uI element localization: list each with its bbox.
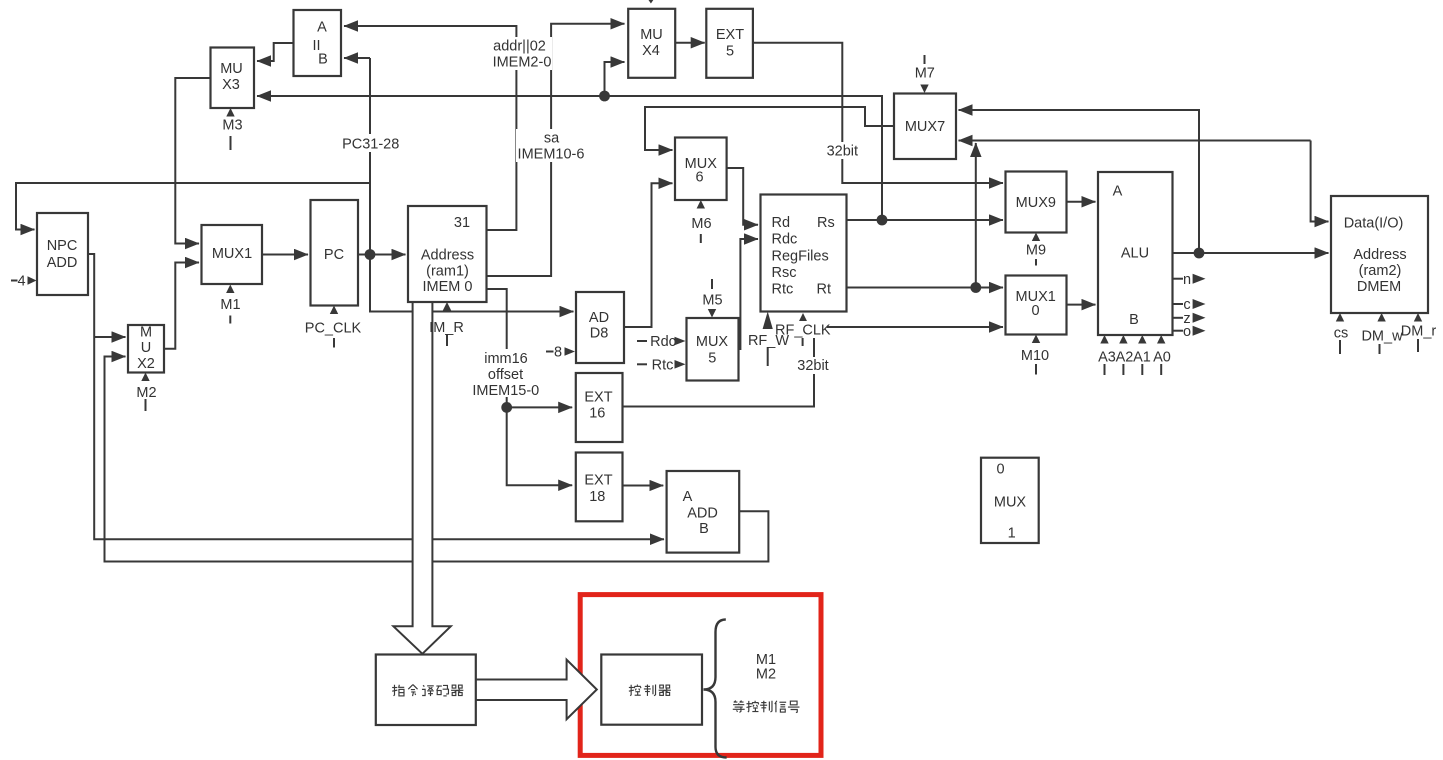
svg-text:PC: PC bbox=[324, 247, 344, 263]
svg-text:A3: A3 bbox=[1098, 350, 1116, 366]
svg-text:EXT: EXT bbox=[584, 389, 612, 405]
svg-text:18: 18 bbox=[589, 489, 605, 505]
svg-text:M9: M9 bbox=[1026, 243, 1046, 259]
svg-text:0: 0 bbox=[996, 462, 1004, 478]
svg-text:M1: M1 bbox=[220, 297, 240, 313]
svg-text:Data(I/O): Data(I/O) bbox=[1344, 216, 1404, 232]
svg-text:B: B bbox=[699, 521, 709, 537]
svg-text:ALU: ALU bbox=[1121, 246, 1149, 262]
svg-text:D8: D8 bbox=[590, 326, 609, 342]
svg-text:PC_CLK: PC_CLK bbox=[305, 321, 362, 337]
svg-text:offset: offset bbox=[488, 367, 523, 383]
svg-text:MUX: MUX bbox=[696, 334, 729, 350]
svg-text:AD: AD bbox=[589, 310, 609, 326]
svg-text:M10: M10 bbox=[1021, 348, 1049, 364]
svg-text:MU: MU bbox=[220, 61, 243, 77]
svg-text:5: 5 bbox=[726, 43, 734, 59]
svg-text:EXT: EXT bbox=[716, 27, 744, 43]
svg-text:imm16: imm16 bbox=[484, 351, 528, 367]
svg-text:Rdc: Rdc bbox=[772, 232, 798, 248]
svg-text:X3: X3 bbox=[222, 77, 240, 93]
svg-text:B: B bbox=[318, 52, 328, 68]
svg-text:16: 16 bbox=[589, 406, 605, 422]
svg-text:IMEM15-0: IMEM15-0 bbox=[472, 383, 539, 399]
svg-text:32bit: 32bit bbox=[827, 144, 858, 160]
svg-text:NPC: NPC bbox=[47, 238, 78, 254]
svg-text:IMEM 0: IMEM 0 bbox=[423, 279, 473, 295]
svg-text:0: 0 bbox=[1031, 303, 1039, 319]
svg-text:addr||02: addr||02 bbox=[493, 39, 546, 55]
svg-text:X2: X2 bbox=[137, 356, 155, 372]
svg-text:8: 8 bbox=[554, 345, 562, 361]
svg-text:EXT: EXT bbox=[584, 472, 612, 488]
svg-text:cs: cs bbox=[1334, 326, 1349, 342]
svg-text:X4: X4 bbox=[642, 43, 660, 59]
svg-text:A: A bbox=[1113, 184, 1123, 200]
svg-text:6: 6 bbox=[695, 170, 703, 186]
svg-text:Address: Address bbox=[1353, 247, 1406, 263]
svg-text:o: o bbox=[1183, 324, 1191, 340]
svg-text:A2: A2 bbox=[1116, 350, 1134, 366]
svg-text:B: B bbox=[1129, 312, 1139, 328]
svg-text:IMEM10-6: IMEM10-6 bbox=[518, 147, 585, 163]
svg-text:RF_CLK: RF_CLK bbox=[775, 323, 831, 339]
svg-text:MU: MU bbox=[640, 27, 663, 43]
svg-text:U: U bbox=[141, 340, 151, 356]
svg-text:M2: M2 bbox=[756, 667, 776, 683]
svg-text:Address: Address bbox=[421, 248, 474, 264]
svg-text:A0: A0 bbox=[1153, 350, 1171, 366]
svg-text:A: A bbox=[317, 20, 327, 36]
svg-text:4: 4 bbox=[17, 274, 25, 290]
svg-text:n: n bbox=[1183, 272, 1191, 288]
svg-text:M1: M1 bbox=[756, 652, 776, 668]
svg-text:ADD: ADD bbox=[687, 506, 718, 522]
svg-text:DM_r: DM_r bbox=[1401, 324, 1437, 340]
svg-text:Rtc: Rtc bbox=[772, 282, 794, 298]
svg-text:31: 31 bbox=[454, 215, 470, 231]
svg-text:ADD: ADD bbox=[47, 255, 78, 271]
svg-text:M3: M3 bbox=[222, 118, 242, 134]
svg-text:Rtc: Rtc bbox=[652, 357, 674, 373]
svg-text:DM_w: DM_w bbox=[1361, 329, 1403, 345]
svg-text:RegFiles: RegFiles bbox=[772, 249, 829, 265]
svg-text:Rd: Rd bbox=[772, 215, 791, 231]
svg-text:A1: A1 bbox=[1133, 350, 1151, 366]
svg-text:M7: M7 bbox=[915, 66, 935, 82]
svg-text:M: M bbox=[140, 325, 152, 341]
svg-text:PC31-28: PC31-28 bbox=[342, 137, 399, 153]
svg-text:5: 5 bbox=[708, 351, 716, 367]
svg-text:Rdc: Rdc bbox=[650, 334, 676, 350]
svg-text:A: A bbox=[683, 489, 693, 505]
svg-text:M5: M5 bbox=[702, 293, 722, 309]
svg-text:(ram2): (ram2) bbox=[1359, 263, 1402, 279]
svg-text:MUX1: MUX1 bbox=[212, 246, 252, 262]
svg-text:IM_R: IM_R bbox=[429, 320, 464, 336]
svg-text:MUX7: MUX7 bbox=[905, 119, 945, 135]
svg-text:Rs: Rs bbox=[817, 215, 835, 231]
svg-text:Rt: Rt bbox=[817, 282, 832, 298]
svg-text:1: 1 bbox=[1008, 526, 1016, 542]
svg-text:DMEM: DMEM bbox=[1357, 279, 1401, 295]
svg-text:IMEM2-0: IMEM2-0 bbox=[493, 55, 552, 71]
svg-text:sa: sa bbox=[544, 131, 560, 147]
svg-text:M2: M2 bbox=[136, 385, 156, 401]
svg-text:M6: M6 bbox=[691, 216, 711, 232]
svg-text:Rsc: Rsc bbox=[772, 265, 797, 281]
svg-text:32bit: 32bit bbox=[797, 358, 828, 374]
svg-text:(ram1): (ram1) bbox=[426, 264, 469, 280]
svg-text:MUX: MUX bbox=[994, 494, 1027, 510]
svg-text:MUX9: MUX9 bbox=[1016, 195, 1056, 211]
